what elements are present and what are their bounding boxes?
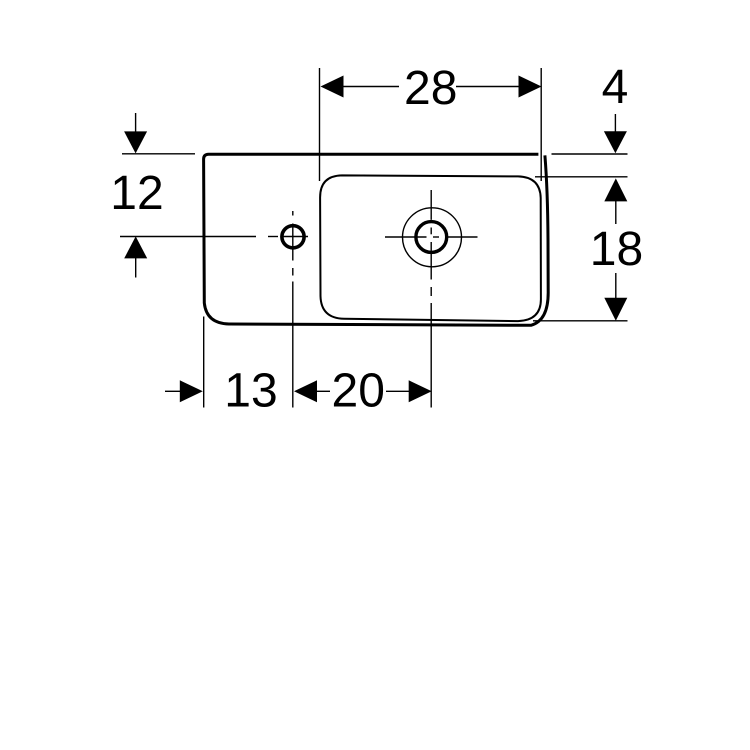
tap hole circle	[282, 226, 304, 248]
drain hole circle	[416, 222, 447, 253]
drain vertical centerline	[430, 190, 432, 408]
drain outer circle	[403, 208, 462, 267]
washbasin outer outline	[204, 154, 549, 325]
dim 4 extension line (outer top edge)	[552, 153, 628, 155]
dim 4 leader line	[614, 114, 616, 132]
dim 20 right-pointing arrow	[409, 380, 432, 402]
svg-text:13: 13	[224, 364, 277, 417]
dim 28 right arrow	[519, 76, 542, 98]
dim 18 down arrow	[604, 298, 627, 321]
svg-text:18: 18	[590, 223, 643, 276]
basin left edge extension line	[203, 317, 205, 408]
dim 18 up arrow	[604, 178, 627, 201]
dim 20 left-pointing arrow	[294, 380, 317, 402]
basin inner rim	[320, 175, 541, 321]
dim 18 top extension line (rim top edge)	[535, 176, 628, 178]
tap hole vertical centerline	[292, 211, 294, 408]
dim 28 extension line left	[319, 68, 321, 181]
dim 4 down arrow	[604, 131, 627, 153]
holes horizontal centerline (also 12 lower extension)	[120, 236, 308, 238]
svg-text:20: 20	[332, 364, 385, 417]
dim 12 lower leader	[135, 258, 137, 278]
svg-text:4: 4	[602, 61, 629, 114]
dim 13 outside leader	[165, 390, 181, 392]
dim 12 up arrow	[124, 236, 147, 258]
dim 18 bottom extension line (rim bottom edge)	[533, 320, 628, 322]
dim 12 top extension line (outer top edge)	[122, 153, 195, 155]
dim 18 lower leader	[615, 273, 617, 299]
dim 20 right leader	[386, 390, 409, 392]
dim 12 down arrow	[124, 131, 147, 153]
dim 28 extension line right	[540, 68, 542, 181]
dim 18 upper leader	[615, 201, 617, 224]
dim 13 right-pointing arrow	[180, 380, 203, 402]
svg-text:12: 12	[110, 167, 163, 220]
dim 20 left leader	[317, 390, 330, 392]
dim 28 line	[344, 86, 520, 88]
drain horizontal centerline	[385, 236, 478, 238]
dim 28 left arrow	[321, 76, 344, 98]
dim 12 upper leader	[135, 113, 137, 132]
svg-text:28: 28	[404, 62, 457, 115]
